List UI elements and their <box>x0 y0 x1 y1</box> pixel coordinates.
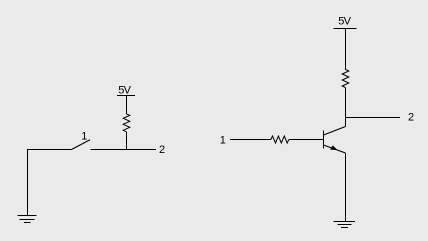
wire: switch right contact to output node and on to terminal 2 <box>91 149 157 151</box>
wire: collector node to terminal 2 <box>346 117 401 119</box>
wire: terminal 1 to base resistor <box>230 139 271 141</box>
ground (right circuit) <box>334 222 356 228</box>
svg-text:5V: 5V <box>118 84 131 96</box>
wire: node up to resistor bottom <box>126 132 128 150</box>
transistor Q1 emitter arrow <box>331 146 337 150</box>
switch S1 lever (open SPST) <box>72 140 90 149</box>
svg-text:2: 2 <box>159 144 165 156</box>
transistor Q1 collector lead <box>324 127 346 136</box>
wire: resistor top to 5V bar <box>126 96 128 115</box>
resistor R1 (pull-up, left) <box>123 114 130 132</box>
resistor R3 (base, horizontal) <box>271 136 289 143</box>
ground (left circuit) <box>18 216 37 223</box>
wire: resistor bottom down to collector <box>345 88 347 127</box>
power 5V symbol (right) <box>334 28 357 30</box>
wire: emitter down to ground <box>345 153 347 222</box>
power 5V symbol (left) <box>117 95 135 97</box>
svg-text:1: 1 <box>220 134 226 146</box>
svg-text:1: 1 <box>81 130 87 142</box>
resistor R2 (collector, right) <box>342 70 349 88</box>
svg-text:5V: 5V <box>338 16 351 28</box>
transistor Q1 base bar <box>323 131 325 149</box>
wire: base resistor to transistor base <box>289 139 324 141</box>
wire: 5V bar down to resistor top <box>345 29 347 70</box>
transistor Q1 emitter lead <box>324 145 346 153</box>
wire: left ground riser to corner <box>28 150 73 216</box>
svg-text:2: 2 <box>408 112 414 124</box>
